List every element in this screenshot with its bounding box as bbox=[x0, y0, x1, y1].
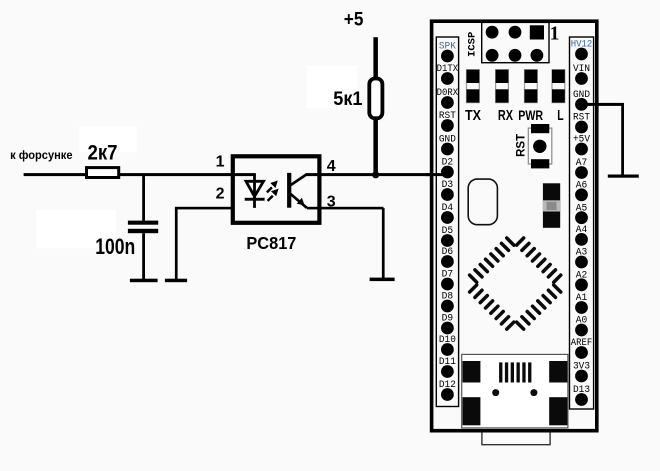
pin RST (right) bbox=[573, 113, 590, 134]
emitter diagonal with arrow bbox=[290, 194, 307, 209]
pin D7 (left) bbox=[441, 270, 454, 291]
svg-text:RX: RX bbox=[498, 108, 513, 124]
pin D13 (right) bbox=[573, 385, 590, 406]
pin A3 (right) bbox=[575, 248, 588, 269]
wire pin4 to D2 bbox=[306, 173, 448, 176]
resistor 2к7 bbox=[87, 168, 119, 178]
ICSP header box bbox=[482, 22, 549, 62]
pin VIN (right) bbox=[573, 64, 590, 85]
svg-text:PC817: PC817 bbox=[246, 233, 296, 253]
pin D11 (left) bbox=[439, 357, 456, 378]
white patch behind 100n label bbox=[36, 209, 116, 248]
wire resistor 5к1 down to node bbox=[373, 118, 378, 176]
LED TX bbox=[467, 70, 480, 103]
ICSP pins bbox=[486, 25, 544, 61]
pin GND (right) bbox=[573, 90, 590, 111]
pin A5 (right) bbox=[575, 203, 588, 224]
svg-text:5к1: 5к1 bbox=[333, 88, 362, 110]
LED L bbox=[552, 70, 565, 103]
Arduino board outline bbox=[432, 21, 597, 431]
svg-text:+5: +5 bbox=[344, 10, 364, 31]
pin D8 (left) bbox=[441, 292, 454, 313]
ground (capacitor) bbox=[130, 279, 158, 283]
pin D2 (left) bbox=[441, 158, 454, 179]
pin A7 (right) bbox=[575, 158, 588, 179]
USB tongue below board bbox=[482, 433, 550, 445]
svg-text:ICSP: ICSP bbox=[467, 32, 479, 57]
svg-text:PWR: PWR bbox=[518, 107, 543, 123]
pin SPK (left) bbox=[439, 42, 456, 63]
LED anode wire inside PC817 bbox=[253, 174, 256, 208]
capacitor C 100n bbox=[128, 221, 158, 234]
pin RST (left) bbox=[439, 111, 456, 132]
pin D10 (left) bbox=[439, 335, 456, 356]
LED PWR bbox=[525, 70, 538, 103]
phototransistor Q inside PC817 (base bar) bbox=[287, 173, 291, 208]
light arrow (lightning) inside PC817 bbox=[267, 181, 279, 201]
svg-text:2к7: 2к7 bbox=[88, 141, 118, 165]
mounting oval bbox=[468, 179, 497, 225]
LED RX bbox=[496, 70, 509, 103]
svg-text:RST: RST bbox=[515, 134, 527, 157]
pin D9 (left) bbox=[441, 314, 454, 335]
USB connector bbox=[462, 354, 568, 428]
wire pin3 to ground bbox=[307, 207, 385, 280]
IC QFP chip (rotated) bbox=[461, 230, 569, 338]
RST button bbox=[528, 124, 552, 168]
pin A0 (right) bbox=[575, 316, 588, 337]
pin GND (left) bbox=[439, 135, 456, 156]
resistor 5к1 bbox=[369, 79, 382, 119]
pin D4 (left) bbox=[441, 203, 454, 224]
junction node (5к1 / pin4 / D2) bbox=[372, 171, 379, 178]
wire GND pin to ground (right) bbox=[582, 103, 625, 175]
wire input to resistor R 2к7 (main node, pin1 net) bbox=[24, 173, 256, 176]
pin A2 (right) bbox=[575, 271, 588, 292]
svg-text:TX: TX bbox=[465, 108, 481, 124]
pin A4 (right) bbox=[575, 225, 588, 246]
pin 3V3 (right) bbox=[573, 362, 590, 383]
wire +5 to resistor 5к1 bbox=[373, 37, 378, 77]
pin A1 (right) bbox=[575, 293, 588, 314]
op-amp? no: optocoupler U1 PC817 box bbox=[233, 156, 320, 223]
white patch behind 2к7 label bbox=[79, 126, 137, 153]
svg-text:L: L bbox=[557, 108, 564, 124]
pin D1TX (left) bbox=[437, 64, 459, 85]
svg-text:100n: 100n bbox=[95, 234, 135, 259]
svg-text:1: 1 bbox=[550, 23, 560, 44]
collector diagonal bbox=[290, 175, 306, 186]
pin A6 (right) bbox=[575, 181, 588, 202]
pin D12 (left) bbox=[439, 380, 456, 401]
pin D3 (left) bbox=[441, 180, 454, 201]
pin HV12 (right) bbox=[571, 40, 593, 61]
crystal / regulator component bbox=[543, 183, 560, 228]
wire pin4 into D2 pin (overlay over board edge) bbox=[425, 173, 450, 176]
LED diode symbol inside PC817 bbox=[245, 181, 265, 200]
svg-text:к форсунке: к форсунке bbox=[10, 150, 72, 162]
pin D6 (left) bbox=[441, 247, 454, 268]
wire capacitor to ground bbox=[142, 233, 145, 279]
ground (right GND) bbox=[608, 175, 639, 178]
wire pin2 to ground bbox=[175, 207, 231, 279]
white patch behind 5к1 label bbox=[307, 66, 358, 109]
svg-text:2: 2 bbox=[216, 186, 225, 203]
pin D0RX (left) bbox=[437, 88, 459, 109]
right pin header box bbox=[570, 37, 594, 409]
ground (pin 2) bbox=[165, 279, 187, 283]
svg-text:1: 1 bbox=[216, 154, 225, 171]
left pin header box bbox=[436, 37, 458, 407]
pin D5 (left) bbox=[441, 226, 454, 247]
ground (pin 3) bbox=[370, 278, 395, 282]
wire capacitor tap (vertical) bbox=[142, 175, 145, 221]
pin +5V (right) bbox=[573, 135, 590, 156]
svg-text:4: 4 bbox=[327, 158, 336, 175]
pin AREF (right) bbox=[571, 338, 593, 359]
